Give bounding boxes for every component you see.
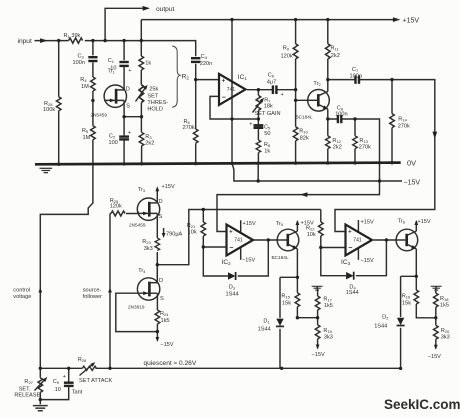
svg-text:Tr4: Tr4 bbox=[138, 268, 146, 274]
svg-text:SET ATTACK: SET ATTACK bbox=[79, 378, 113, 384]
svg-text:S: S bbox=[159, 214, 163, 220]
svg-text:C5: C5 bbox=[264, 125, 271, 131]
svg-text:82k: 82k bbox=[300, 135, 309, 141]
svg-text:+: + bbox=[63, 374, 66, 380]
svg-text:50: 50 bbox=[264, 131, 270, 137]
svg-text:D: D bbox=[159, 278, 163, 284]
svg-text:+: + bbox=[281, 92, 284, 98]
svg-text:R5: R5 bbox=[82, 128, 89, 134]
svg-text:IC3: IC3 bbox=[341, 259, 351, 266]
svg-text:100n: 100n bbox=[350, 74, 362, 80]
svg-text:+: + bbox=[128, 130, 131, 136]
svg-text:output: output bbox=[156, 6, 175, 13]
svg-text:R11: R11 bbox=[331, 46, 340, 52]
svg-text:R13: R13 bbox=[359, 138, 368, 144]
svg-text:25k: 25k bbox=[149, 87, 158, 93]
svg-text:C2: C2 bbox=[109, 133, 116, 139]
svg-text:R9: R9 bbox=[283, 46, 290, 52]
svg-text:2k2: 2k2 bbox=[333, 145, 342, 151]
svg-text:R28: R28 bbox=[44, 101, 53, 107]
svg-text:10: 10 bbox=[55, 387, 61, 393]
svg-text:THRES-: THRES- bbox=[147, 100, 168, 106]
svg-text:3k3: 3k3 bbox=[441, 335, 450, 341]
svg-text:18k: 18k bbox=[264, 104, 273, 110]
svg-text:R7: R7 bbox=[264, 98, 271, 104]
svg-text:R10: R10 bbox=[299, 129, 308, 135]
svg-text:S: S bbox=[160, 296, 164, 302]
svg-text:R26: R26 bbox=[78, 357, 87, 363]
svg-text:1M: 1M bbox=[81, 84, 89, 90]
svg-text:+: + bbox=[128, 68, 131, 74]
svg-text:source-: source- bbox=[83, 288, 102, 294]
svg-text:2N5459: 2N5459 bbox=[129, 223, 146, 228]
svg-text:+15V: +15V bbox=[403, 17, 420, 24]
svg-text:220n: 220n bbox=[200, 61, 212, 67]
svg-text:15k: 15k bbox=[402, 301, 411, 307]
svg-text:0V: 0V bbox=[407, 158, 416, 167]
svg-text:−15V: −15V bbox=[242, 258, 255, 264]
svg-text:R21: R21 bbox=[187, 223, 196, 229]
svg-text:SeekIC.com: SeekIC.com bbox=[384, 397, 460, 412]
svg-text:2k2: 2k2 bbox=[145, 140, 154, 146]
svg-text:R23: R23 bbox=[142, 239, 151, 245]
svg-text:790μA: 790μA bbox=[166, 232, 183, 238]
svg-text:Tr2: Tr2 bbox=[313, 81, 321, 87]
svg-text:C8: C8 bbox=[337, 106, 344, 112]
svg-text:R2: R2 bbox=[182, 73, 190, 80]
svg-text:120k: 120k bbox=[281, 53, 293, 59]
svg-text:R20: R20 bbox=[441, 328, 450, 334]
svg-text:+15V: +15V bbox=[417, 219, 430, 225]
svg-text:4μ7: 4μ7 bbox=[267, 79, 276, 85]
svg-text:Tr6: Tr6 bbox=[398, 219, 406, 225]
svg-text:−15V: −15V bbox=[312, 352, 325, 358]
svg-text:−15V: −15V bbox=[361, 258, 374, 264]
svg-text:D: D bbox=[159, 199, 163, 205]
svg-text:R14: R14 bbox=[398, 117, 407, 123]
svg-text:+15V: +15V bbox=[361, 220, 374, 226]
svg-text:D1: D1 bbox=[263, 319, 270, 325]
svg-text:HOLD: HOLD bbox=[147, 107, 163, 113]
svg-text:R8: R8 bbox=[264, 142, 271, 148]
svg-text:S: S bbox=[126, 103, 130, 109]
svg-text:voltage: voltage bbox=[13, 294, 31, 300]
svg-text:1k: 1k bbox=[264, 149, 270, 155]
svg-text:quiescent ≈ 0.26V: quiescent ≈ 0.26V bbox=[144, 360, 197, 367]
svg-text:R1 39k: R1 39k bbox=[64, 33, 81, 39]
svg-text:270k: 270k bbox=[398, 123, 410, 129]
svg-text:R24: R24 bbox=[160, 311, 169, 317]
svg-text:R27: R27 bbox=[24, 379, 33, 385]
svg-text:1S44: 1S44 bbox=[226, 291, 239, 297]
svg-text:1S44: 1S44 bbox=[346, 290, 359, 296]
svg-text:C3: C3 bbox=[78, 54, 85, 60]
svg-text:D2: D2 bbox=[382, 315, 389, 321]
svg-text:IC2: IC2 bbox=[222, 259, 232, 266]
svg-text:Tr5: Tr5 bbox=[276, 221, 284, 227]
svg-text:2N3819: 2N3819 bbox=[128, 305, 145, 310]
svg-text:1S44: 1S44 bbox=[258, 327, 271, 333]
svg-text:10: 10 bbox=[110, 65, 116, 71]
svg-text:SET: SET bbox=[147, 94, 158, 100]
svg-text:1k: 1k bbox=[145, 61, 151, 67]
svg-text:R12: R12 bbox=[332, 138, 341, 144]
svg-text:D3: D3 bbox=[229, 285, 236, 291]
svg-text:R4: R4 bbox=[80, 77, 87, 83]
svg-text:C6: C6 bbox=[268, 73, 275, 79]
svg-text:3k3: 3k3 bbox=[144, 246, 153, 252]
svg-text:−15V: −15V bbox=[428, 354, 441, 360]
svg-text:1M: 1M bbox=[83, 135, 91, 141]
svg-text:−15V: −15V bbox=[160, 342, 173, 348]
svg-text:BC184L: BC184L bbox=[272, 255, 289, 260]
svg-text:R16: R16 bbox=[402, 294, 411, 300]
svg-text:C7: C7 bbox=[352, 67, 359, 73]
svg-text:1S44: 1S44 bbox=[374, 324, 387, 330]
svg-text:270k: 270k bbox=[359, 145, 371, 151]
svg-text:15k: 15k bbox=[282, 300, 291, 306]
svg-text:SET GAIN: SET GAIN bbox=[255, 111, 281, 117]
svg-text:Tr3: Tr3 bbox=[138, 187, 146, 193]
svg-text:R19: R19 bbox=[323, 328, 332, 334]
svg-text:2k2: 2k2 bbox=[331, 53, 340, 59]
svg-text:10k: 10k bbox=[188, 230, 197, 236]
svg-text:C4: C4 bbox=[201, 54, 208, 60]
svg-text:R18: R18 bbox=[440, 296, 449, 302]
svg-text:−15V: −15V bbox=[404, 179, 421, 186]
svg-text:270k: 270k bbox=[183, 125, 195, 131]
svg-text:R22: R22 bbox=[306, 226, 315, 232]
svg-text:BC184L: BC184L bbox=[296, 114, 313, 119]
svg-text:+15V: +15V bbox=[243, 221, 256, 227]
svg-text:C9: C9 bbox=[53, 379, 60, 385]
svg-text:100n: 100n bbox=[335, 112, 347, 118]
svg-text:100n: 100n bbox=[73, 60, 85, 66]
svg-text:120k: 120k bbox=[110, 204, 122, 210]
svg-text:R17: R17 bbox=[323, 297, 332, 303]
svg-text:+: + bbox=[249, 121, 252, 127]
svg-text:IC1: IC1 bbox=[238, 74, 248, 81]
svg-text:1k5: 1k5 bbox=[440, 303, 449, 309]
svg-text:10k: 10k bbox=[307, 232, 316, 238]
svg-text:RELEASE: RELEASE bbox=[14, 393, 40, 399]
svg-text:follower: follower bbox=[83, 294, 102, 300]
svg-text:100: 100 bbox=[109, 140, 118, 146]
svg-text:100k: 100k bbox=[43, 107, 55, 113]
svg-text:input: input bbox=[18, 38, 32, 45]
svg-text:Tant: Tant bbox=[72, 390, 83, 396]
svg-text:2N5459: 2N5459 bbox=[91, 112, 108, 117]
svg-text:R15: R15 bbox=[281, 294, 290, 300]
svg-text:3k3: 3k3 bbox=[324, 335, 333, 341]
svg-text:1k5: 1k5 bbox=[324, 303, 333, 309]
svg-text:D: D bbox=[126, 87, 130, 93]
svg-text:C1: C1 bbox=[108, 58, 115, 64]
svg-text:+15V: +15V bbox=[162, 184, 175, 190]
svg-text:control: control bbox=[13, 288, 30, 294]
svg-text:1k5: 1k5 bbox=[161, 318, 170, 324]
svg-text:R3: R3 bbox=[145, 134, 152, 140]
